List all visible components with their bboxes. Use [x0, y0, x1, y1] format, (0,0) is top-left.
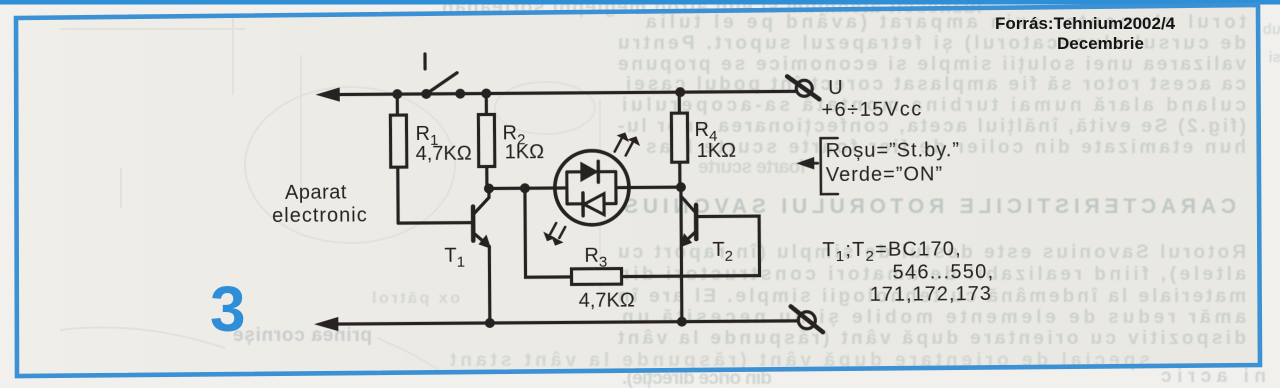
wire R4 bottom lead	[678, 162, 681, 187]
junction R4 / top rail	[675, 87, 685, 97]
LED D1 emission arrows lower left	[544, 223, 565, 245]
svg-text:4,7KΩ: 4,7KΩ	[579, 289, 635, 311]
switch I lever	[426, 73, 457, 94]
svg-text:3: 3	[210, 273, 246, 345]
svg-text:U: U	[828, 77, 843, 99]
switch I right terminal	[455, 89, 465, 99]
svg-text:ub: ub	[1263, 21, 1280, 38]
wire T2 collector-emitter vertical (node B to bottom rail)	[679, 187, 683, 321]
junction node R3 tap on node A wire	[520, 183, 530, 193]
switch I left terminal	[421, 89, 431, 99]
svg-text:dispozitiv cu orientare după v: dispozitiv cu orientare după vânt (răspu…	[617, 328, 1246, 349]
arrow bottom rail to Aparat electronic (left)	[316, 318, 338, 331]
svg-text:Verde=”ON”: Verde=”ON”	[826, 163, 943, 186]
svg-text:prinea cornișe: prinea cornișe	[233, 325, 372, 346]
wire R2 bottom lead	[485, 167, 488, 189]
LED D1 internal anti-parallel wiring	[554, 172, 630, 205]
junction R1 / top rail	[392, 89, 402, 99]
LED D1 upper diode (filled, pointing right)	[581, 161, 599, 182]
svg-text:171,172,173: 171,172,173	[870, 283, 992, 306]
top strip	[0, 0, 1280, 5]
resistor R3 body	[571, 269, 621, 285]
svg-text:electronic: electronic	[272, 204, 368, 227]
wire T1 base to R1	[398, 221, 471, 225]
svg-text:546...550,: 546...550,	[892, 261, 994, 284]
wire LED right to node B	[616, 186, 681, 190]
arrow legend pointing to LED	[798, 158, 818, 169]
wire R1 top lead	[396, 94, 399, 115]
svg-text:1KΩ: 1KΩ	[697, 140, 737, 162]
svg-text:+6÷15Vcc: +6÷15Vcc	[821, 98, 923, 121]
transistor T1 (NPN)	[473, 188, 491, 323]
svg-text:de cursul alunecatorul) și fet: de cursul alunecatorul) și fetrapezul su…	[618, 33, 1246, 54]
svg-text:4,7KΩ: 4,7KΩ	[416, 143, 472, 165]
LED D1 bicolor envelope circle	[555, 151, 630, 226]
junction T1 emitter / bottom rail	[485, 318, 495, 328]
ghost drawing curves left side	[60, 18, 600, 372]
wire node A to R3 left lead	[525, 188, 572, 277]
LED D1 lower diode (open, pointing left)	[583, 193, 604, 216]
svg-text:T1: T1	[444, 245, 465, 271]
switch designator I	[423, 54, 426, 69]
svg-text:amăr redus de elemente mobile: amăr redus de elemente mobile și nu nece…	[622, 307, 1246, 328]
svg-text:si: si	[1268, 49, 1280, 66]
resistor R4 body	[671, 113, 687, 162]
resistor R1 body	[390, 115, 406, 167]
wire node A to LED left	[489, 186, 567, 190]
junction T2 emitter / bottom rail	[677, 317, 687, 327]
svg-text:R3: R3	[584, 245, 607, 271]
resistor R2 body	[478, 114, 494, 166]
wire R3 right lead to T2 base	[621, 216, 759, 276]
LED D1 emission arrows upper right	[615, 133, 640, 156]
svg-text:ox pătrol: ox pătrol	[372, 290, 460, 307]
svg-text:Forrás:Tehnium2002/4: Forrás:Tehnium2002/4	[995, 14, 1176, 33]
wire R4 top lead	[678, 92, 681, 113]
svg-text:CARACTERISTICILE ROTORULUI SAV: CARACTERISTICILE ROTORULUI SAVONIUS	[624, 195, 1236, 218]
svg-text:Decembrie: Decembrie	[1057, 34, 1144, 53]
transistor T2 (NPN, mirrored)	[680, 196, 696, 247]
svg-text:culand alară numai turbina mon: culand alară numai turbina montată sa-ac…	[622, 95, 1246, 116]
arrow top rail to Aparat electronic (left)	[317, 88, 339, 101]
bracket of LED colour legend	[821, 138, 838, 194]
wire R2 top lead	[485, 94, 488, 115]
junction node A: R2 / T1 collector / LED left	[484, 183, 494, 193]
wire R1 bottom lead	[396, 167, 400, 223]
terminal supply return (bottom right)	[791, 306, 823, 332]
wire bottom return rail	[326, 321, 798, 324]
svg-text:Roșu=”St.by.”: Roșu=”St.by.”	[826, 139, 960, 162]
svg-text:1KΩ: 1KΩ	[505, 141, 545, 163]
svg-text:Aparat: Aparat	[285, 181, 347, 203]
terminal U (+6..15V supply)	[787, 76, 819, 99]
junction R2 / top rail	[481, 88, 491, 98]
source credit Forras	[995, 14, 1176, 53]
wire top supply rail	[329, 91, 796, 94]
junction node B: R4 / T2 collector / LED right	[676, 182, 686, 192]
svg-text:valizarea unei soluții simple: valizarea unei soluții simple si economi…	[618, 54, 1246, 75]
